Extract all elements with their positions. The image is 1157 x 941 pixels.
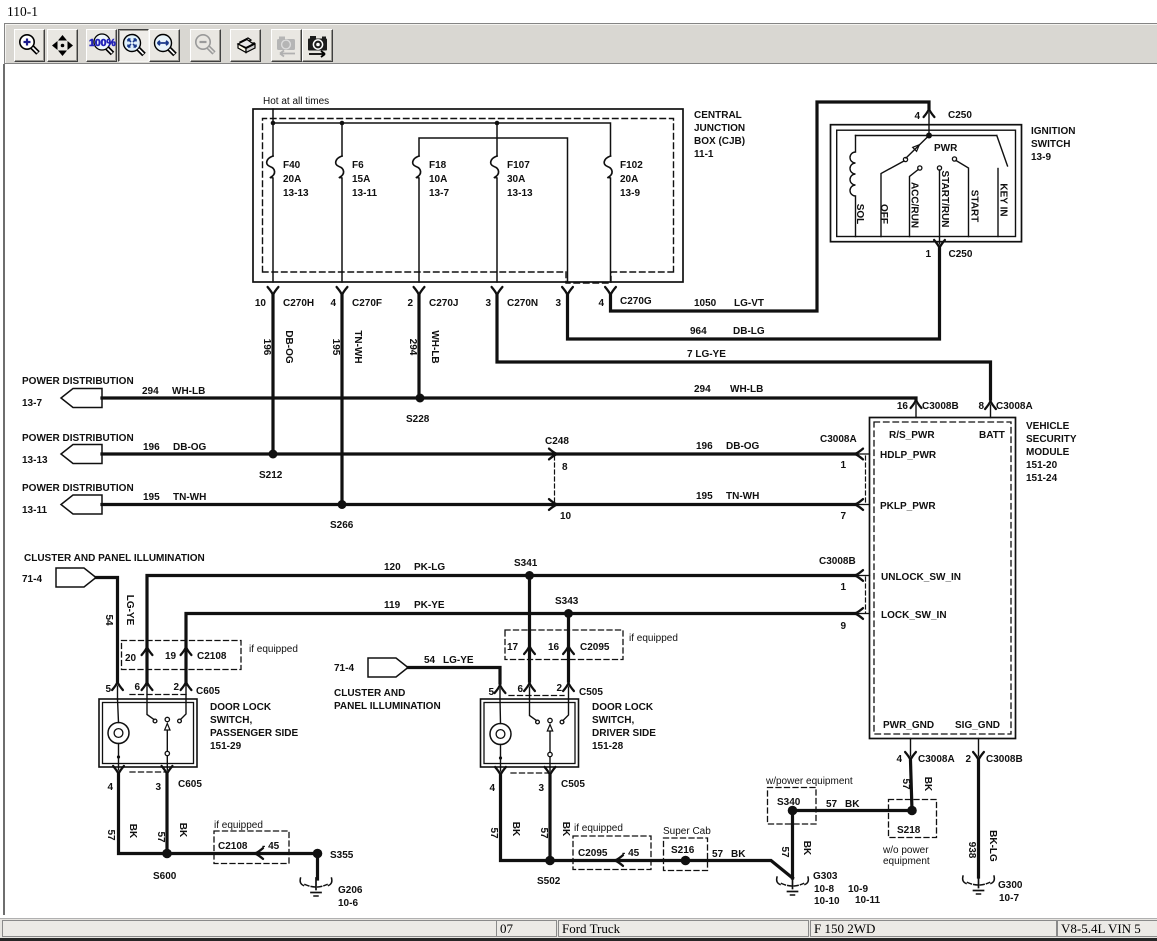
fuse F107 30A 13-13 [491, 156, 499, 282]
svg-text:ACC/RUN: ACC/RUN [909, 182, 920, 228]
svg-text:C605: C605 [196, 686, 220, 697]
svg-text:11-1: 11-1 [694, 149, 714, 160]
svg-text:BATT: BATT [979, 430, 1005, 441]
svg-text:DB-OG: DB-OG [173, 442, 207, 453]
wire 7 LG-YE [497, 295, 991, 399]
wire hot feed into CJB [272, 109, 274, 156]
svg-text:1050: 1050 [694, 298, 717, 309]
wire 57 BK to G303 [686, 861, 793, 879]
connector C250 pin 1 [934, 240, 945, 248]
svg-text:195: 195 [696, 491, 713, 502]
svg-text:10-11: 10-11 [855, 895, 880, 906]
svg-text:WH-LB: WH-LB [429, 330, 440, 363]
toolbar button zoom-100% [86, 29, 117, 62]
svg-text:LG-VT: LG-VT [734, 298, 764, 309]
svg-text:S340: S340 [777, 797, 801, 808]
contact START [952, 157, 956, 161]
svg-text:PWR_GND: PWR_GND [883, 720, 934, 731]
svg-text:196: 196 [261, 339, 272, 356]
connector C270F pin 4 [337, 287, 348, 295]
wire 294 WH-LB [102, 398, 916, 400]
svg-text:BOX (CJB): BOX (CJB) [694, 136, 745, 147]
svg-text:54: 54 [103, 614, 114, 626]
ground G300 [963, 876, 995, 894]
switch wiper arm [906, 136, 929, 159]
svg-text:S218: S218 [897, 825, 921, 836]
svg-text:71-4: 71-4 [334, 663, 354, 674]
svg-text:7: 7 [840, 511, 846, 522]
connector C3008A pin 1 (HDLP_PWR) [855, 449, 863, 460]
svg-text:- 45: - 45 [622, 848, 640, 859]
svg-text:DOOR LOCK: DOOR LOCK [592, 702, 654, 713]
contact OFF [903, 157, 907, 161]
svg-text:S216: S216 [671, 845, 695, 856]
svg-text:w/o power: w/o power [882, 845, 929, 856]
wire 57 BK passenger pin4 [119, 775, 318, 854]
svg-text:57: 57 [105, 829, 116, 841]
svg-text:SIG_GND: SIG_GND [955, 720, 1000, 731]
svg-text:294: 294 [407, 339, 418, 356]
connector C505 dashed line (bottom) [511, 772, 549, 774]
connector C2095 pin 17 fork [524, 646, 535, 654]
svg-text:IGNITION: IGNITION [1031, 126, 1075, 137]
svg-text:10: 10 [560, 511, 572, 522]
svg-text:C505: C505 [579, 687, 603, 698]
svg-text:9: 9 [840, 621, 846, 632]
svg-text:2: 2 [173, 682, 179, 693]
wire 196 DB-OG [102, 452, 855, 455]
svg-text:S266: S266 [330, 520, 354, 531]
svg-text:57: 57 [488, 827, 499, 839]
svg-text:195: 195 [143, 492, 160, 503]
toolbar button fit-window (pressed) [118, 29, 149, 62]
svg-text:196: 196 [696, 441, 713, 452]
connector C505 pin 5 [495, 685, 506, 693]
wire 57 BK driver pin4 [501, 776, 686, 861]
wire S340 to ground G303 [791, 811, 794, 879]
svg-text:BK: BK [801, 841, 812, 856]
svg-text:3: 3 [155, 782, 161, 793]
svg-text:19: 19 [165, 651, 177, 662]
svg-text:10-8: 10-8 [814, 884, 834, 895]
svg-text:13-11: 13-11 [22, 505, 47, 516]
svg-text:BK: BK [127, 824, 138, 839]
content area left border [3, 64, 5, 915]
svg-text:57: 57 [538, 827, 549, 839]
svg-text:71-4: 71-4 [22, 574, 42, 585]
svg-text:13-13: 13-13 [507, 188, 533, 199]
svg-text:Hot at all times: Hot at all times [263, 96, 329, 107]
wire 195 TN-WH vertical [340, 295, 343, 505]
svg-text:SWITCH: SWITCH [1031, 139, 1070, 150]
switch driver: pin2 contact [563, 699, 569, 721]
svg-text:F18: F18 [429, 160, 447, 171]
svg-text:17: 17 [507, 642, 519, 653]
toolbar button zoom-out (disabled) [190, 29, 221, 62]
fuse F102 20A 13-9 [604, 156, 612, 282]
svg-text:4: 4 [598, 298, 604, 309]
svg-text:C3008B: C3008B [922, 401, 959, 412]
svg-text:3: 3 [538, 783, 544, 794]
svg-text:C505: C505 [561, 779, 585, 790]
svg-text:F6: F6 [352, 160, 364, 171]
svg-text:VEHICLE: VEHICLE [1026, 421, 1070, 432]
svg-text:w/power equipment: w/power equipment [765, 776, 853, 787]
toolbar button next-diagram [302, 29, 333, 62]
svg-text:DB-OG: DB-OG [283, 330, 294, 364]
splice S341 [525, 571, 534, 580]
svg-text:C3008A: C3008A [820, 434, 857, 445]
svg-text:LG-YE: LG-YE [124, 595, 135, 626]
wire 964 DB-LG [568, 249, 940, 339]
svg-text:R/S_PWR: R/S_PWR [889, 430, 935, 441]
svg-text:16: 16 [897, 401, 909, 412]
status bar [0, 918, 1157, 939]
svg-text:13-11: 13-11 [352, 188, 377, 199]
svg-text:2: 2 [965, 754, 971, 765]
wire 57 BK passenger pin3 [165, 775, 168, 854]
svg-text:POWER DISTRIBUTION: POWER DISTRIBUTION [22, 433, 134, 444]
svg-text:JUNCTION: JUNCTION [694, 123, 745, 134]
switch passenger: pin6 contact [147, 699, 154, 720]
wire fuse bus 2 [419, 138, 568, 282]
svg-text:OFF: OFF [878, 204, 889, 224]
svg-text:C605: C605 [178, 779, 202, 790]
svg-text:13-9: 13-9 [1031, 152, 1051, 163]
ground G303 [777, 877, 809, 895]
svg-text:964: 964 [690, 326, 707, 337]
svg-text:10-7: 10-7 [999, 893, 1019, 904]
svg-text:BK: BK [845, 799, 860, 810]
svg-text:C270G: C270G [620, 296, 652, 307]
svg-text:BK: BK [560, 822, 571, 837]
splice S218 (w/o power equipment) [889, 800, 937, 838]
svg-text:30A: 30A [507, 174, 525, 185]
svg-text:TN-WH: TN-WH [173, 492, 206, 503]
wire F107 lead [496, 123, 498, 156]
svg-text:6: 6 [134, 682, 140, 693]
svg-text:if equipped: if equipped [214, 820, 263, 831]
door lock switch passenger outline [99, 699, 197, 767]
svg-text:S600: S600 [153, 871, 177, 882]
off-page ref CLUSTER AND PANEL ILLUMINATION 71-4 (left) [56, 568, 96, 587]
svg-text:20A: 20A [620, 174, 638, 185]
wire ignition internal top rail [856, 135, 997, 137]
wire 119 PK-YE [186, 614, 855, 685]
svg-text:if equipped: if equipped [574, 823, 623, 834]
svg-text:C3008A: C3008A [996, 401, 1033, 412]
svg-text:G303: G303 [813, 871, 838, 882]
wire C250 pin4 to PWR node [928, 113, 930, 136]
connector C605 pin 3 [162, 766, 173, 774]
svg-text:LG-YE: LG-YE [443, 655, 474, 666]
connector C270J pin 2 [414, 287, 425, 295]
svg-text:4: 4 [107, 782, 113, 793]
svg-text:PK-YE: PK-YE [414, 600, 445, 611]
svg-text:UNLOCK_SW_IN: UNLOCK_SW_IN [881, 572, 961, 583]
svg-text:S502: S502 [537, 876, 561, 887]
fuse F6 15A 13-11 [336, 156, 344, 282]
svg-text:C2108: C2108 [197, 651, 227, 662]
svg-text:BK-LG: BK-LG [987, 830, 998, 862]
svg-text:START/RUN: START/RUN [939, 170, 950, 227]
svg-text:13-9: 13-9 [620, 188, 640, 199]
page title 110-1 [7, 4, 38, 20]
svg-text:BK: BK [177, 823, 188, 838]
wire 196 DB-OG vertical [271, 295, 274, 454]
svg-text:10: 10 [255, 298, 267, 309]
toolbar button print [230, 29, 261, 62]
ground G206 [300, 878, 332, 896]
svg-text:equipment: equipment [883, 856, 930, 867]
svg-text:2: 2 [556, 683, 562, 694]
connector C3008B pin 16 (R/S_PWR) [911, 400, 922, 408]
svg-text:3: 3 [555, 298, 561, 309]
wire 294 WH-LB vertical [417, 295, 420, 398]
toolbar button prev-diagram (disabled) [271, 29, 302, 62]
svg-text:C250: C250 [948, 110, 972, 121]
wire 54 LG-YE (passenger) [96, 578, 118, 682]
svg-text:C270J: C270J [429, 298, 458, 309]
svg-text:C3008B: C3008B [986, 754, 1023, 765]
inductor SOL [850, 136, 856, 237]
fuse F18 10A 13-7 [413, 156, 421, 282]
splice S212 [269, 450, 278, 459]
svg-text:S341: S341 [514, 558, 538, 569]
vehicle security module outline [870, 418, 1016, 739]
svg-text:C2108: C2108 [218, 841, 248, 852]
svg-text:8: 8 [978, 401, 984, 412]
svg-text:C248: C248 [545, 436, 569, 447]
svg-text:C3008A: C3008A [918, 754, 955, 765]
svg-text:KEY IN: KEY IN [998, 183, 1009, 216]
svg-text:13-13: 13-13 [283, 188, 309, 199]
central junction box CJB outline [253, 109, 683, 283]
off-page ref POWER DISTRIBUTION 13-13 [61, 445, 102, 464]
node bus1-F6 [340, 121, 345, 126]
connector C3008A pin 4 (PWR_GND) [905, 752, 916, 760]
off-page ref POWER DISTRIBUTION 13-7 [61, 389, 102, 408]
svg-text:TN-WH: TN-WH [726, 491, 759, 502]
svg-text:SECURITY: SECURITY [1026, 434, 1077, 445]
svg-text:DOOR LOCK: DOOR LOCK [210, 702, 272, 713]
svg-text:151-24: 151-24 [1026, 473, 1058, 484]
svg-text:START: START [969, 190, 980, 223]
svg-text:16: 16 [548, 642, 560, 653]
svg-text:CENTRAL: CENTRAL [694, 110, 742, 121]
connector C3008B pin 9 (LOCK_SW_IN) [855, 608, 863, 619]
svg-text:5: 5 [488, 687, 494, 698]
svg-text:15A: 15A [352, 174, 370, 185]
wire 195 TN-WH [102, 503, 855, 506]
svg-text:151-20: 151-20 [1026, 460, 1058, 471]
svg-text:8: 8 [562, 462, 568, 473]
in-line connector C2095 - 45 (if equipped) [573, 836, 651, 870]
svg-text:3: 3 [485, 298, 491, 309]
wire 57 BK PWR_GND to S218 [911, 761, 913, 811]
svg-text:S343: S343 [555, 596, 579, 607]
door lock switch driver outline [481, 699, 579, 767]
svg-text:196: 196 [143, 442, 160, 453]
off-page ref POWER DISTRIBUTION 13-11 [61, 495, 102, 514]
splice S600 [162, 849, 172, 859]
connector C505 dashed line (top) [509, 695, 564, 697]
svg-text:PWR: PWR [934, 143, 958, 154]
wire S341 drop [528, 576, 531, 682]
in-line connector C248 pin 8 [549, 449, 557, 460]
toolbar button fit-width [149, 29, 180, 62]
svg-text:294: 294 [142, 386, 159, 397]
connector C2108 pin 20 fork [142, 647, 153, 655]
svg-text:S212: S212 [259, 470, 283, 481]
svg-text:PKLP_PWR: PKLP_PWR [880, 501, 936, 512]
svg-text:POWER DISTRIBUTION: POWER DISTRIBUTION [22, 376, 134, 387]
connector C605 pin 4 [113, 766, 124, 774]
svg-text:57: 57 [155, 831, 166, 843]
wire S355 to ground [316, 854, 319, 880]
connector C3008B pin 1 (UNLOCK_SW_IN) [855, 570, 863, 581]
wire 938 BK-LG SIG_GND to G300 [977, 761, 980, 877]
svg-text:BK: BK [922, 777, 933, 792]
connector C270N pin 3 [492, 287, 503, 295]
wire 54 LG-YE (driver) [408, 668, 500, 684]
splice S502 [545, 856, 555, 866]
svg-text:G300: G300 [998, 880, 1023, 891]
svg-text:1: 1 [925, 249, 931, 260]
svg-text:10A: 10A [429, 174, 447, 185]
svg-text:WH-LB: WH-LB [730, 384, 763, 395]
switch passenger: wiper [165, 717, 169, 721]
svg-text:WH-LB: WH-LB [172, 386, 205, 397]
svg-text:10-9: 10-9 [848, 884, 868, 895]
svg-text:2: 2 [407, 298, 413, 309]
connector C605 dashed line (bottom) [130, 771, 166, 773]
svg-text:1: 1 [840, 460, 846, 471]
svg-text:57: 57 [779, 846, 790, 858]
connector C505 pin 2 [563, 683, 574, 691]
wire 120 PK-LG [147, 576, 855, 685]
connector pin 3 (fuse F107 drop) [562, 287, 573, 295]
svg-text:C270F: C270F [352, 298, 382, 309]
connector C505 pin 4 [495, 767, 506, 775]
svg-text:PK-LG: PK-LG [414, 562, 445, 573]
svg-text:151-28: 151-28 [592, 741, 624, 752]
connector C605 dashed line (top) [130, 694, 186, 696]
svg-text:20: 20 [125, 653, 137, 664]
connector C605 pin 2 [181, 682, 192, 690]
svg-text:MODULE: MODULE [1026, 447, 1070, 458]
splice S340 (w/power equipment) [768, 788, 817, 825]
svg-text:C3008B: C3008B [819, 556, 856, 567]
svg-text:4: 4 [330, 298, 336, 309]
splice S343 [564, 609, 573, 618]
connector C605 pin 6 [142, 682, 153, 690]
svg-text:119: 119 [384, 600, 401, 611]
switch passenger: pin2 contact [181, 699, 187, 720]
svg-text:5: 5 [105, 684, 111, 695]
off-page ref CLUSTER AND PANEL ILLUMINATION 71-4 (driver) [368, 658, 408, 677]
svg-text:F40: F40 [283, 160, 301, 171]
bottom dark strip [0, 938, 1157, 941]
svg-text:SWITCH,: SWITCH, [210, 715, 252, 726]
svg-text:if equipped: if equipped [249, 644, 298, 655]
connector C270G pin 4 [605, 287, 616, 295]
toolbar button zoom-in [14, 29, 45, 62]
connector C2095 pin 16 fork [563, 646, 574, 654]
svg-text:C2095: C2095 [578, 848, 608, 859]
connector C3008A pin 8 (BATT) [985, 401, 996, 409]
wire F6 lead [341, 123, 343, 156]
toolbar panel [4, 23, 1157, 64]
svg-text:POWER DISTRIBUTION: POWER DISTRIBUTION [22, 483, 134, 494]
wire 57 BK S340 to S218 [793, 809, 913, 812]
fuse F40 20A 13-13 [267, 156, 275, 282]
svg-text:20A: 20A [283, 174, 301, 185]
ignition switch U-IGN outline [831, 125, 1022, 242]
svg-text:PANEL ILLUMINATION: PANEL ILLUMINATION [334, 701, 441, 712]
connector C2095 (if equipped) [505, 630, 623, 660]
svg-text:CLUSTER AND PANEL ILLUMINATION: CLUSTER AND PANEL ILLUMINATION [24, 553, 205, 564]
svg-text:57: 57 [712, 849, 724, 860]
contact ACC/RUN [918, 166, 922, 170]
svg-text:Super Cab: Super Cab [663, 826, 711, 837]
in-line connector C248 pin 10 [549, 499, 557, 510]
svg-text:4: 4 [489, 783, 495, 794]
svg-text:4: 4 [896, 754, 902, 765]
svg-text:294: 294 [694, 384, 711, 395]
connector C250 pin 4 [924, 109, 935, 117]
splice S355 [313, 849, 323, 859]
svg-text:DB-OG: DB-OG [726, 441, 760, 452]
wire S343 drop [567, 614, 570, 682]
connector C605 pin 5 [112, 682, 123, 690]
svg-text:G206: G206 [338, 885, 363, 896]
svg-text:10-6: 10-6 [338, 898, 358, 909]
svg-text:57: 57 [826, 799, 838, 810]
connector C505 pin 6 [524, 683, 535, 691]
node bus1-F107 [495, 121, 500, 126]
svg-text:S355: S355 [330, 850, 354, 861]
svg-text:7 LG-YE: 7 LG-YE [687, 349, 726, 360]
connector C3008B pin 2 (SIG_GND) [973, 752, 984, 760]
svg-text:54: 54 [424, 655, 436, 666]
svg-text:SWITCH,: SWITCH, [592, 715, 634, 726]
svg-text:C270N: C270N [507, 298, 538, 309]
splice S216 (Super Cab) [664, 838, 708, 871]
svg-text:- 45: - 45 [262, 841, 280, 852]
svg-text:TN-WH: TN-WH [352, 330, 363, 363]
contact KEY IN [997, 136, 1008, 167]
svg-text:HDLP_PWR: HDLP_PWR [880, 450, 937, 461]
content area top border [4, 63, 1157, 64]
svg-text:BK: BK [731, 849, 746, 860]
svg-text:if equipped: if equipped [629, 633, 678, 644]
toolbar button pan [47, 29, 78, 62]
svg-text:151-29: 151-29 [210, 741, 242, 752]
lamp driver door lock [490, 724, 511, 745]
connector C2108 pin 19 fork [181, 647, 192, 655]
connector C3008A pin 7 (PKLP_PWR) [855, 499, 863, 510]
svg-text:C270H: C270H [283, 298, 314, 309]
svg-text:6: 6 [517, 684, 523, 695]
svg-text:CLUSTER AND: CLUSTER AND [334, 688, 405, 699]
svg-text:F102: F102 [620, 160, 643, 171]
svg-text:13-7: 13-7 [22, 398, 42, 409]
switch driver: wiper [548, 718, 552, 722]
wire 1050 LG-VT to ignition switch [611, 102, 930, 311]
svg-text:4: 4 [914, 111, 920, 122]
svg-text:13-7: 13-7 [429, 188, 449, 199]
